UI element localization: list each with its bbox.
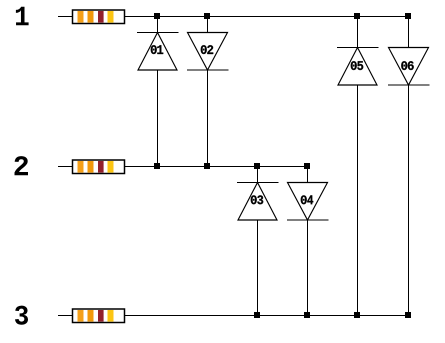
diode 06 (388, 48, 430, 86)
wire diode 05 down to node3 (357, 85, 359, 316)
wire node1 down to diode 01 (157, 16, 159, 33)
wire diode 02 down to node2 (207, 70, 209, 167)
wire row1 left lead (58, 16, 73, 18)
junction node2 / diode 04 branch (304, 163, 310, 169)
wire row3 main (124, 315, 411, 317)
wire row1 main (124, 16, 411, 18)
junction node1 / diode 01 branch (154, 13, 160, 19)
wire node1 down to diode 02 (207, 16, 209, 33)
junction node3 / diode 05 branch (354, 312, 360, 318)
resistor R3 (73, 309, 125, 323)
junction node2 / diode 03 branch (254, 163, 260, 169)
diode 03 (237, 183, 279, 221)
wire node2 down to diode 03 (257, 166, 259, 183)
resistor R1 (73, 10, 125, 24)
junction node1 / diode 06 branch (405, 13, 411, 19)
wire row2 main (124, 166, 310, 168)
junction node3 / diode 06 branch (405, 312, 411, 318)
wire diode 04 down to node3 (307, 220, 309, 316)
diode 04 (287, 183, 329, 221)
junction node3 / diode 03 branch (254, 312, 260, 318)
node 1 label (16, 7, 29, 25)
wire diode 01 down to node2 (157, 70, 159, 167)
diode 02 (187, 33, 229, 71)
resistor R2 (73, 160, 125, 174)
wire diode 03 down to node3 (257, 220, 259, 316)
node 2 label (15, 156, 29, 175)
junction node3 / diode 04 branch (304, 312, 310, 318)
diode 05 (337, 48, 379, 86)
wire node2 down to diode 04 (307, 166, 309, 183)
wire row2 left lead (58, 166, 73, 168)
wire node1 down to diode 06 (408, 16, 410, 48)
wire diode 06 down to node3 (408, 85, 410, 316)
wire node1 down to diode 05 (357, 16, 359, 48)
junction node2 / diode 02 branch (204, 163, 210, 169)
wire row3 left lead (58, 315, 73, 317)
junction node1 / diode 02 branch (204, 13, 210, 19)
junction node1 / diode 05 branch (354, 13, 360, 19)
junction node2 / diode 01 branch (154, 163, 160, 169)
node 3 label (15, 306, 28, 325)
diode 01 (137, 33, 179, 71)
